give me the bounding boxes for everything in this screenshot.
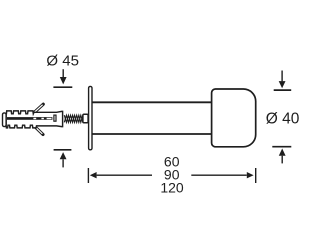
wall plug slot end bracket xyxy=(54,115,56,121)
Ø40 top extension line xyxy=(274,89,292,91)
stopper body top line xyxy=(92,101,213,103)
screw thread zigzag A xyxy=(64,115,83,122)
svg-text:Ø 45: Ø 45 xyxy=(46,53,79,70)
screw head xyxy=(83,114,88,123)
wall plug lower expansion wing xyxy=(34,126,43,135)
svg-text:120: 120 xyxy=(160,179,184,195)
wall plug body outline xyxy=(6,111,63,128)
Ø45 down arrow xyxy=(60,69,67,84)
Ø40 down arrow xyxy=(279,71,286,89)
stopper body bottom line xyxy=(92,133,213,135)
wall flange plate xyxy=(89,86,92,149)
Ø45 bottom extension line xyxy=(54,149,72,151)
Ø45 top extension line xyxy=(53,86,72,88)
length dimension right arrow xyxy=(191,172,253,178)
rubber buffer head xyxy=(212,89,256,147)
Ø40 bottom extension line xyxy=(272,146,291,148)
length dimension left tick xyxy=(87,168,89,183)
svg-text:Ø 40: Ø 40 xyxy=(266,111,300,128)
Ø40 up arrow xyxy=(279,149,286,164)
wall plug expansion slot xyxy=(7,117,52,120)
screw thread zigzag B xyxy=(64,115,83,122)
Ø45 up arrow xyxy=(60,152,67,167)
length dimension left arrow xyxy=(90,172,152,178)
wall plug left end cap xyxy=(3,113,7,127)
wall plug upper expansion wing xyxy=(34,104,44,113)
length labels 60 / 90 / 120 xyxy=(160,154,184,196)
length dimension right tick xyxy=(255,168,257,183)
